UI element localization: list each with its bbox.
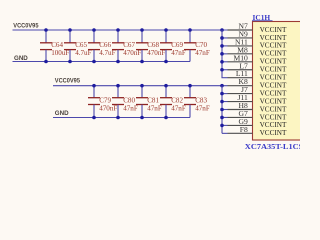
junction C80 on lower GND rail <box>116 116 120 120</box>
junction C69 on GND rail <box>164 60 168 64</box>
svg-text:VCCINT: VCCINT <box>260 113 287 121</box>
wire: branch to pin M8 <box>222 53 228 55</box>
wire: branch to pin J11 <box>222 101 228 103</box>
svg-text:47nF: 47nF <box>171 49 186 57</box>
wire: vertical bus to pins J7-F8 <box>221 86 223 134</box>
svg-text:4.7uF: 4.7uF <box>99 49 115 57</box>
junction C82 on lower VCC0V95 rail <box>164 84 168 88</box>
pin N11 (VCCINT) <box>228 37 287 49</box>
junction C65 on VCC0V95 rail <box>68 28 72 32</box>
svg-text:C65: C65 <box>75 41 87 49</box>
wire: top GND rail <box>13 61 191 63</box>
wire: branch to pin L7 <box>222 69 228 71</box>
wire: branch to pin J7 <box>222 93 228 95</box>
svg-text:VCCINT: VCCINT <box>260 34 287 42</box>
svg-text:VCC0V95: VCC0V95 <box>13 23 38 30</box>
wire: lower VCC0V95 rail <box>53 85 228 87</box>
svg-text:C79: C79 <box>99 97 111 105</box>
junction C64 on VCC0V95 rail <box>44 28 48 32</box>
svg-text:47nF: 47nF <box>171 104 186 112</box>
junction C80 on lower VCC0V95 rail <box>116 84 120 88</box>
svg-text:F8: F8 <box>240 125 248 134</box>
junction C79 on lower GND rail <box>92 116 96 120</box>
svg-text:C67: C67 <box>123 41 135 49</box>
pin N9 (VCCINT) <box>228 29 287 41</box>
svg-text:VCCINT: VCCINT <box>260 26 287 34</box>
junction C81 on lower VCC0V95 rail <box>140 84 144 88</box>
svg-text:C66: C66 <box>99 41 111 49</box>
junction bus/G7 <box>220 116 224 120</box>
pin K8 (VCCINT) <box>228 77 287 89</box>
svg-text:470nF: 470nF <box>123 49 141 57</box>
svg-text:VCCINT: VCCINT <box>260 50 287 58</box>
pin G7 (VCCINT) <box>228 109 287 121</box>
junction bus/H8 <box>220 108 224 112</box>
wire: branch to pin G7 <box>222 116 228 118</box>
wire: branch to pin N11 <box>222 45 228 47</box>
capacitor C83 47nF <box>184 86 210 118</box>
svg-text:VCCINT: VCCINT <box>260 66 287 74</box>
svg-text:C69: C69 <box>171 41 183 49</box>
svg-text:C70: C70 <box>195 41 207 49</box>
capacitor C81 47nF <box>136 86 162 118</box>
svg-text:VCCINT: VCCINT <box>260 105 287 113</box>
junction C67 on GND rail <box>116 60 120 64</box>
junction C70 on VCC0V95 rail <box>188 28 192 32</box>
pin F8 (VCCINT) <box>228 125 287 137</box>
svg-text:C81: C81 <box>147 97 159 105</box>
svg-text:4.7uF: 4.7uF <box>75 49 91 57</box>
junction bus on lower VCC0V95 rail <box>220 84 224 88</box>
svg-text:VCCINT: VCCINT <box>260 121 287 129</box>
svg-text:C80: C80 <box>123 97 135 105</box>
pin M10 (VCCINT) <box>228 53 287 65</box>
pin H8 (VCCINT) <box>228 101 287 113</box>
junction C64 on GND rail <box>44 60 48 64</box>
svg-text:470nF: 470nF <box>147 49 165 57</box>
junction bus/M8 <box>220 52 224 56</box>
svg-text:C68: C68 <box>147 41 159 49</box>
IC1H name underline <box>252 20 273 22</box>
capacitor C80 47nF <box>112 86 138 118</box>
wire: branch to pin F8 <box>222 132 228 134</box>
IC U=IC1H body <box>253 22 303 141</box>
junction bus on VCC0V95 rail <box>220 28 224 32</box>
pin J7 (VCCINT) <box>228 85 287 97</box>
svg-text:VCCINT: VCCINT <box>260 129 287 137</box>
svg-text:VCCINT: VCCINT <box>260 81 287 89</box>
junction C83 on lower VCC0V95 rail <box>188 84 192 88</box>
svg-text:47nF: 47nF <box>195 49 210 57</box>
junction C66 on VCC0V95 rail <box>92 28 96 32</box>
capacitor C64 100uF <box>40 30 69 62</box>
junction bus/M10 <box>220 60 224 64</box>
svg-text:VCCINT: VCCINT <box>260 97 287 105</box>
junction C68 on GND rail <box>140 60 144 64</box>
pin L11 (VCCINT) <box>228 69 287 81</box>
svg-text:C83: C83 <box>195 97 207 105</box>
capacitor C79 470nF <box>88 86 117 118</box>
wire: lower GND rail <box>53 117 190 119</box>
svg-text:VCC0V95: VCC0V95 <box>55 78 80 85</box>
junction C82 on lower GND rail <box>164 116 168 120</box>
wire: top VCC0V95 rail <box>13 29 228 31</box>
capacitor C67 470nF <box>112 30 141 62</box>
wire: branch to pin M10 <box>222 61 228 63</box>
svg-text:47nF: 47nF <box>195 104 210 112</box>
wire: branch to pin G9 <box>222 124 228 126</box>
svg-text:VCCINT: VCCINT <box>260 42 287 50</box>
junction C69 on VCC0V95 rail <box>164 28 168 32</box>
wire: branch to pin N9 <box>222 37 228 39</box>
svg-text:VCCINT: VCCINT <box>260 58 287 66</box>
capacitor C82 47nF <box>160 86 186 118</box>
svg-text:XC7A35T-L1CS: XC7A35T-L1CS <box>245 142 300 151</box>
pin M8 (VCCINT) <box>228 45 287 57</box>
svg-text:470nF: 470nF <box>99 104 117 112</box>
svg-text:47nF: 47nF <box>123 104 138 112</box>
junction C68 on VCC0V95 rail <box>140 28 144 32</box>
capacitor C68 470nF <box>136 30 165 62</box>
pin G9 (VCCINT) <box>228 117 287 129</box>
pin J11 (VCCINT) <box>228 93 287 105</box>
junction bus/J7 <box>220 92 224 96</box>
capacitor C65 4.7uF <box>64 30 92 62</box>
wire: vertical bus to pins N9-L11 <box>221 30 223 78</box>
wire: branch to pin L11 <box>221 77 227 79</box>
junction bus/N9 <box>220 36 224 40</box>
junction bus/J11 <box>220 100 224 104</box>
junction C66 on GND rail <box>92 60 96 64</box>
capacitor C69 47nF <box>160 30 186 62</box>
svg-text:C82: C82 <box>171 97 183 105</box>
pin L7 (VCCINT) <box>228 61 287 73</box>
svg-text:100uF: 100uF <box>51 49 69 57</box>
junction bus/L7 <box>220 68 224 72</box>
svg-text:GND: GND <box>55 110 69 117</box>
pin N7 (VCCINT) <box>228 22 287 34</box>
svg-text:VCCINT: VCCINT <box>260 89 287 97</box>
junction bus/G9 <box>220 124 224 128</box>
junction C81 on lower GND rail <box>140 116 144 120</box>
junction C79 on lower VCC0V95 rail <box>92 84 96 88</box>
junction C67 on VCC0V95 rail <box>116 28 120 32</box>
junction bus/N11 <box>220 44 224 48</box>
svg-text:47nF: 47nF <box>147 104 162 112</box>
capacitor C66 4.7uF <box>88 30 116 62</box>
wire: branch to pin H8 <box>222 109 228 111</box>
svg-text:C64: C64 <box>51 41 63 49</box>
capacitor C70 47nF <box>184 30 210 62</box>
junction C65 on GND rail <box>68 60 72 64</box>
svg-text:VCCINT: VCCINT <box>260 74 287 82</box>
